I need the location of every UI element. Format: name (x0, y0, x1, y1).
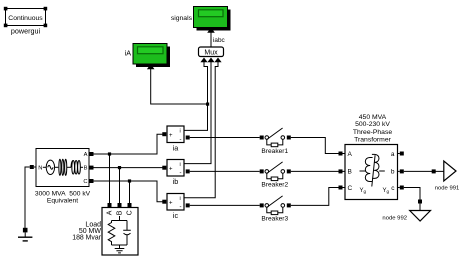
wire phase A source to ia (94, 134, 163, 154)
wire phase A down to load (109, 154, 111, 203)
scope signals (194, 7, 231, 33)
svg-text:A: A (106, 210, 113, 215)
wire ia signal to Mux input 1 (185, 62, 208, 130)
svg-text:Breaker2: Breaker2 (261, 182, 288, 189)
svg-text:node 992: node 992 (382, 216, 407, 222)
node 991 port marker (432, 169, 436, 173)
svg-text:powergui: powergui (11, 26, 41, 35)
svg-text:ib: ib (173, 177, 179, 186)
source block 3000 MVA 500 kV Equivalent (36, 149, 89, 187)
svg-text:ia: ia (173, 143, 179, 152)
source port B marker (90, 166, 94, 170)
Breaker2 (260, 162, 291, 181)
svg-text:Equivalent: Equivalent (47, 198, 78, 205)
value label Load 50 MW 188 Mvar (72, 221, 101, 241)
svg-text:b: b (391, 169, 395, 176)
svg-text:A: A (84, 152, 88, 158)
transformer port a marker (400, 152, 404, 156)
svg-text:-: - (180, 205, 182, 211)
transformer port stubs right (398, 154, 400, 188)
svg-text:450 MVA: 450 MVA (359, 114, 387, 121)
svg-text:Yg: Yg (383, 188, 390, 194)
load capacitor (123, 221, 131, 246)
powergui block (Continuous) (4, 7, 47, 27)
series inductor coil 2 (67, 166, 71, 168)
value label 450 MVA 500-230 kV Three-Phase Transformer (353, 114, 393, 144)
svg-text:i: i (180, 196, 181, 202)
current measurement ic (162, 194, 189, 211)
wire ic signal to Mux input 3 (185, 62, 219, 198)
primary winding (365, 157, 372, 181)
source port N marker (30, 165, 36, 169)
transformer port c marker (400, 186, 404, 190)
svg-text:C: C (126, 210, 133, 215)
transformer port b marker (400, 169, 404, 173)
wire phase C source to ic (94, 181, 163, 202)
series inductor coil 1 (55, 166, 59, 168)
wire ic to Breaker3 (190, 204, 260, 206)
svg-text:N: N (38, 166, 42, 172)
load internal ground (115, 249, 125, 253)
svg-text:Three-Phase: Three-Phase (353, 129, 393, 136)
svg-text:Breaker1: Breaker1 (261, 148, 288, 155)
wire branch to scope iA (151, 69, 208, 104)
transformer port B marker (339, 169, 343, 173)
Three-Phase Transformer T1 (345, 145, 398, 200)
svg-text:Continuous: Continuous (8, 15, 43, 22)
svg-text:B: B (116, 210, 123, 215)
svg-text:iabc: iabc (213, 37, 226, 44)
wire Mux output to scope signals (210, 33, 212, 48)
AC voltage source symbol (43, 166, 46, 168)
node 991 (444, 161, 456, 181)
wire Breaker2 to transformer B (291, 170, 345, 172)
svg-text:-: - (180, 137, 182, 143)
current measurement ib (162, 160, 189, 177)
wire ib signal to Mux input 2 (185, 62, 212, 164)
svg-text:a: a (391, 151, 395, 158)
load resistor (108, 221, 115, 246)
svg-text:C: C (83, 179, 87, 185)
wire phase C down to load (129, 181, 131, 203)
wire ib to Breaker2 (190, 170, 260, 172)
transformer port A marker (339, 152, 343, 156)
svg-text:-: - (180, 171, 182, 177)
wire N to ground (25, 167, 30, 228)
svg-text:Mux: Mux (204, 50, 218, 57)
svg-text:Yg: Yg (360, 188, 367, 194)
svg-text:signals: signals (171, 15, 193, 22)
source port A marker (90, 152, 94, 156)
current measurement ia (162, 126, 189, 143)
svg-text:+: + (169, 133, 173, 139)
wire phase B source to ib (94, 167, 163, 169)
svg-text:Breaker3: Breaker3 (261, 216, 288, 223)
junction phase C (128, 179, 131, 182)
svg-text:Transformer: Transformer (354, 136, 391, 143)
svg-text:B: B (84, 166, 88, 172)
secondary winding (372, 154, 379, 178)
node 992 port marker (418, 200, 422, 204)
wire ia to Breaker1 (190, 137, 260, 139)
junction on ia signal (206, 103, 209, 106)
Breaker1 (260, 128, 291, 147)
svg-text:C: C (348, 185, 353, 192)
load bottom bus (112, 245, 128, 248)
load port C marker (128, 203, 132, 207)
load port A marker (108, 203, 112, 207)
wire Breaker3 to transformer C (291, 188, 339, 206)
load feed wire (112, 216, 128, 221)
ground (18, 228, 32, 241)
svg-text:iA: iA (125, 49, 132, 58)
svg-text:B: B (348, 169, 352, 176)
transformer port C marker (339, 186, 343, 190)
svg-text:i: i (180, 162, 181, 168)
Mux U1 (199, 47, 224, 62)
junction phase B (118, 166, 121, 169)
winding stubs (360, 170, 385, 172)
transformer port stubs left (343, 154, 346, 188)
source port C marker (90, 179, 94, 183)
svg-text:+: + (169, 201, 173, 207)
svg-text:3000 MVA 500 kV: 3000 MVA 500 kV (35, 190, 91, 197)
wire Breaker1 to transformer A (291, 138, 339, 154)
scope iA (133, 44, 170, 70)
value label 3000 MVA 500 kV Equivalent (35, 190, 91, 204)
wire transformer c to node 992 (404, 188, 420, 211)
load port B marker (118, 203, 122, 207)
svg-text:i: i (180, 129, 181, 135)
core slant line (372, 155, 375, 186)
svg-text:node 991: node 991 (435, 185, 460, 191)
wire phase B down to load (119, 168, 121, 203)
Load block (102, 203, 138, 255)
Breaker3 (260, 196, 291, 215)
node 992 (410, 211, 431, 222)
junction phase A (108, 152, 111, 155)
svg-text:+: + (169, 167, 173, 173)
svg-text:ic: ic (173, 211, 179, 220)
svg-text:A: A (348, 151, 353, 158)
svg-text:188 Mvar: 188 Mvar (72, 235, 101, 242)
svg-text:500-230 kV: 500-230 kV (355, 121, 390, 128)
wire transformer b to node 991 (404, 170, 444, 172)
